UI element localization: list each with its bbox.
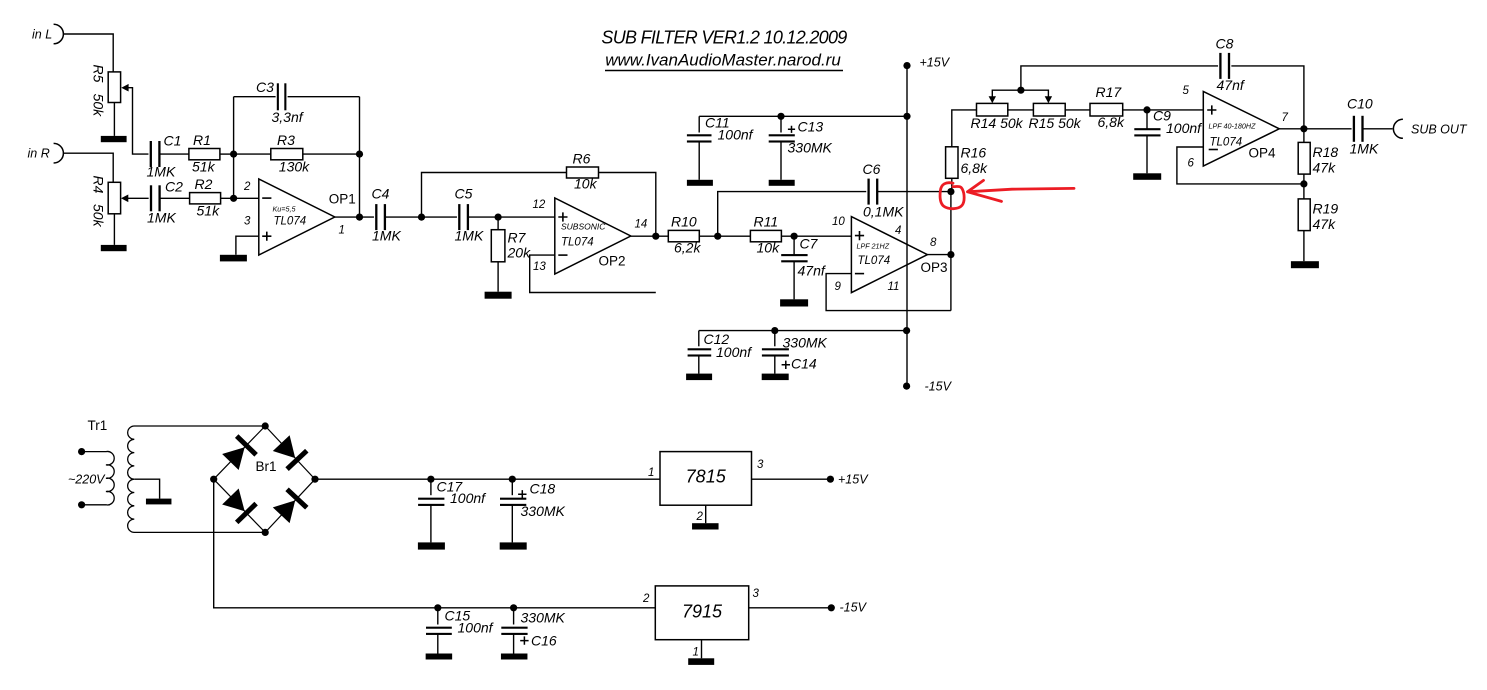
node H junction R17/C9 [1143, 106, 1150, 113]
wire R3 row [234, 153, 360, 155]
svg-text:+15V: +15V [920, 56, 951, 70]
wire R14/R15 wipers to feedback node [992, 90, 1048, 99]
svg-text:-15V: -15V [840, 601, 868, 615]
wire OP1 + input to ground [236, 236, 259, 255]
op-amp OP1 [259, 179, 335, 255]
ground C7 [780, 299, 808, 306]
red arrow [968, 180, 1075, 201]
svg-text:12: 12 [533, 199, 546, 211]
wire -15V decoupling rail [699, 330, 907, 332]
node C16 tap [510, 604, 517, 611]
svg-text:R15 50k: R15 50k [1029, 115, 1082, 131]
OP4 non-inverting input symbol [1207, 105, 1216, 114]
svg-text:51k: 51k [192, 159, 216, 175]
svg-text:Br1: Br1 [256, 459, 277, 474]
node OP1 output [356, 214, 363, 221]
wire C12 to ground [698, 356, 700, 374]
capacitor C14 [774, 331, 776, 347]
svg-text:4: 4 [895, 225, 901, 237]
wire C13 to ground [780, 142, 782, 180]
svg-text:SUBSONIC: SUBSONIC [561, 222, 606, 232]
wire feedback vertical at node A/B [233, 97, 235, 199]
capacitor C1 [148, 141, 161, 167]
wire C1 to R1 [160, 153, 189, 155]
+15V output terminal [827, 476, 834, 483]
wire bridge + output to 7815 [315, 478, 660, 480]
R15 wiper arrow [1045, 96, 1052, 103]
resistor R17 [1090, 103, 1123, 116]
svg-text:3: 3 [244, 216, 251, 228]
capacitor C18 [511, 479, 513, 495]
svg-text:11: 11 [888, 281, 900, 293]
node R3 output side [356, 151, 363, 158]
ground C12 [686, 374, 712, 381]
wire R15 to R17 [1065, 109, 1090, 111]
ground C18 [500, 542, 527, 549]
svg-text:9: 9 [835, 281, 842, 293]
svg-text:in R: in R [28, 147, 50, 161]
capacitor C10 [1352, 116, 1365, 142]
node A junction R1/R3/C3 [230, 151, 237, 158]
node G junction C6/R16/OP3 output [947, 188, 954, 195]
op-amp OP3 [851, 217, 927, 293]
svg-text:R10: R10 [671, 214, 697, 230]
wire 7915 output [749, 607, 832, 609]
node bridge right [311, 476, 318, 483]
svg-text:C1: C1 [164, 133, 182, 149]
node C15 tap [434, 604, 441, 611]
diode D1 (left to top) [221, 434, 258, 471]
wire OP3 output vertical to node G [950, 192, 952, 311]
node C17 tap [427, 476, 434, 483]
resistor R6 [567, 167, 599, 178]
node C13 rail junction [777, 113, 784, 120]
svg-text:OP3: OP3 [921, 260, 948, 275]
svg-text:TL074: TL074 [858, 255, 891, 267]
connector in R [54, 143, 64, 163]
svg-text:C2: C2 [165, 179, 183, 195]
resistor R2 [190, 193, 221, 204]
svg-text:7815: 7815 [686, 466, 727, 486]
wire OP1 output [335, 216, 377, 218]
svg-text:100nf: 100nf [718, 127, 755, 143]
+15V terminal [903, 62, 910, 69]
resistor R7 [497, 217, 499, 230]
potentiometer R5 [108, 72, 120, 103]
svg-text:Tr1: Tr1 [88, 418, 108, 433]
svg-text:5: 5 [1183, 85, 1190, 97]
wire R16 top to R14 [952, 110, 977, 147]
svg-text:R7: R7 [508, 230, 527, 246]
svg-text:13: 13 [533, 261, 546, 273]
svg-text:LPF 40-180HZ: LPF 40-180HZ [1209, 122, 1257, 131]
ground center tap [146, 499, 172, 505]
capacitor C4 [374, 204, 387, 230]
Tr1 secondary winding [128, 426, 266, 532]
node E junction R10/R11/C6 [714, 233, 721, 240]
node OP2 output [652, 233, 659, 240]
svg-text:10: 10 [832, 216, 845, 228]
resistor R1 [189, 149, 220, 160]
connector in L [54, 24, 64, 44]
wire bridge - output to 7915 [214, 479, 656, 608]
wire R1 to node A [220, 153, 234, 155]
svg-text:6,8k: 6,8k [961, 160, 988, 176]
wire C7 to ground [793, 262, 795, 300]
node OP4 output [1300, 125, 1307, 132]
svg-text:TL074: TL074 [561, 237, 594, 249]
ground C9 [1133, 173, 1161, 180]
capacitor C3 [276, 83, 288, 110]
OP2 inverting input symbol [558, 254, 567, 256]
ground 7815 [692, 523, 719, 529]
wire C9 to ground [1146, 136, 1148, 174]
wire C3 feedback top [234, 96, 360, 98]
wire R18 to node I [1303, 174, 1305, 199]
node bridge bottom [262, 529, 269, 536]
wire node C up to R6 feedback and to OP2 output [422, 173, 656, 237]
svg-text:130k: 130k [279, 159, 310, 175]
Tr1 primary winding [82, 451, 115, 505]
wire OP3 inverting feedback loop [826, 274, 951, 311]
diode D2 (top to right) [271, 434, 308, 471]
svg-text:7915: 7915 [682, 602, 723, 622]
svg-text:51k: 51k [197, 203, 221, 219]
wire C15 to ground [437, 634, 439, 653]
wire R11 to OP3 + input [781, 235, 851, 237]
wire C11 to ground [698, 142, 700, 180]
wire 7915 pin 1 to ground [701, 640, 703, 659]
svg-text:R5: R5 [91, 65, 107, 83]
regulator U1 7815 [660, 452, 752, 506]
R4 wiper arrow [121, 195, 128, 203]
svg-text:-15V: -15V [925, 380, 953, 394]
wire C17 to ground [430, 505, 432, 542]
wire feedback right vertical to OP1 output [359, 97, 361, 217]
node bridge top [262, 422, 269, 429]
svg-text:~220V: ~220V [68, 473, 106, 487]
svg-text:50k: 50k [91, 94, 107, 118]
svg-text:1MK: 1MK [455, 228, 484, 244]
wire C18 to ground [511, 505, 513, 542]
svg-text:14: 14 [635, 219, 648, 231]
svg-text:C16: C16 [531, 633, 557, 649]
svg-text:330MK: 330MK [788, 140, 833, 156]
svg-text:R2: R2 [195, 176, 213, 192]
wire R4 to ground [113, 214, 115, 245]
svg-text:R1: R1 [193, 132, 211, 148]
svg-text:100nf: 100nf [450, 490, 487, 506]
svg-text:1MK: 1MK [372, 228, 401, 244]
wire node E up to C6 line [718, 192, 869, 237]
capacitor C15 [437, 608, 439, 625]
R14 wiper arrow [989, 96, 996, 103]
ground C11 [687, 180, 713, 186]
node D junction C5/R7 [495, 214, 502, 221]
ground C17 [418, 542, 445, 549]
wire R4 wiper to C2 [128, 197, 151, 199]
resistor R10 [668, 230, 699, 241]
svg-text:330MK: 330MK [783, 335, 828, 351]
svg-text:R17: R17 [1096, 84, 1123, 100]
svg-text:0,1MK: 0,1MK [863, 204, 904, 220]
svg-text:6,8k: 6,8k [1098, 114, 1125, 130]
op-amp OP2 [555, 198, 631, 274]
OP2 non-inverting input symbol [558, 212, 567, 221]
wire R2 to OP1 inverting input [221, 197, 259, 199]
svg-text:C4: C4 [372, 186, 390, 202]
wire R7 to ground [497, 262, 499, 292]
wire 7815 output [752, 478, 831, 480]
svg-text:2: 2 [642, 593, 650, 605]
svg-text:330MK: 330MK [521, 610, 566, 626]
svg-text:1: 1 [339, 225, 345, 237]
svg-text:1: 1 [693, 647, 699, 659]
svg-text:OP4: OP4 [1249, 146, 1277, 161]
regulator U2 7915 [655, 586, 748, 640]
wire C6 to node G [878, 191, 951, 193]
node F junction R11/C7 [791, 233, 798, 240]
wire OP4 output [1278, 128, 1353, 130]
svg-text:47nf: 47nf [1217, 77, 1246, 93]
svg-text:TL074: TL074 [1210, 137, 1243, 149]
svg-text:1: 1 [648, 467, 654, 479]
svg-text:R3: R3 [277, 132, 295, 148]
svg-text:C8: C8 [1216, 36, 1234, 52]
svg-text:6: 6 [1188, 158, 1195, 170]
resistor R16 [951, 178, 953, 191]
wire R19 to ground [1303, 231, 1305, 262]
svg-text:7: 7 [1282, 112, 1289, 124]
svg-text:100nf: 100nf [1166, 120, 1203, 136]
wire R10 to R11 [699, 235, 750, 237]
node wiper junction [1017, 87, 1024, 94]
node OP3 output [947, 251, 954, 258]
OP1 inverting input symbol [262, 197, 271, 199]
Tr1 primary terminal top [78, 448, 85, 455]
node B junction R2/feedback [230, 195, 237, 202]
resistor R18 [1303, 129, 1305, 143]
wire C14 to ground [774, 356, 776, 374]
wire Tr1 center tap [134, 479, 159, 498]
wire in L to R5 [63, 34, 113, 72]
svg-text:C10: C10 [1347, 96, 1373, 112]
op-amp OP4 [1203, 92, 1279, 167]
svg-text:R6: R6 [573, 151, 591, 167]
OP4 inverting input symbol [1209, 149, 1218, 151]
capacitor C7 [793, 236, 795, 254]
capacitor C8 [1218, 53, 1231, 79]
node C junction C4/C5/R6 [418, 214, 425, 221]
node I junction R18/R19/feedback [1300, 180, 1307, 187]
R5 wiper arrow [121, 84, 128, 92]
potentiometer R14 [977, 103, 1008, 116]
wire OP4 inverting feedback loop [1177, 147, 1304, 184]
capacitor C2 [149, 185, 162, 211]
svg-text:1MK: 1MK [147, 210, 176, 226]
ground R7 [485, 292, 512, 299]
svg-text:SUB FILTER VER1.2 10.12.2009: SUB FILTER VER1.2 10.12.2009 [601, 28, 847, 48]
capacitor C17 [430, 479, 432, 495]
svg-text:R14 50k: R14 50k [971, 115, 1024, 131]
svg-text:OP2: OP2 [599, 254, 626, 269]
capacitor C13 [780, 116, 782, 132]
svg-text:in L: in L [32, 28, 52, 42]
svg-text:R4: R4 [91, 176, 107, 194]
red highlight circle [940, 183, 964, 209]
svg-text:10k: 10k [574, 176, 598, 192]
wire C4 to node C [385, 216, 422, 218]
ground R5 [101, 136, 127, 142]
svg-text:3: 3 [753, 588, 760, 600]
Tr1 primary terminal bottom [78, 501, 85, 508]
OP3 inverting input symbol [855, 273, 864, 275]
svg-text:R16: R16 [961, 145, 987, 161]
capacitor C11 [698, 116, 700, 132]
svg-text:C7: C7 [800, 236, 819, 252]
ground R4 [101, 245, 127, 251]
svg-text:LPF 21HZ: LPF 21HZ [857, 242, 890, 251]
connector SUB OUT [1393, 119, 1403, 138]
svg-text:8: 8 [930, 237, 937, 249]
node +15V rail junction [903, 113, 910, 120]
svg-text:C14: C14 [791, 356, 817, 372]
wire OP3 output [927, 254, 951, 256]
wire main power rail vertical [906, 66, 908, 387]
svg-text:C3: C3 [256, 79, 274, 95]
svg-text:C5: C5 [455, 186, 473, 202]
wire +15V decoupling rail [699, 115, 907, 117]
ground C16 [501, 654, 528, 660]
node C18 tap [509, 476, 516, 483]
svg-text:6,2k: 6,2k [674, 240, 701, 256]
svg-text:330MK: 330MK [521, 503, 566, 519]
wire R17 to OP4 + input [1123, 109, 1204, 111]
svg-text:www.IvanAudioMaster.narod.ru: www.IvanAudioMaster.narod.ru [605, 51, 841, 70]
capacitor C9 [1146, 110, 1148, 129]
svg-text:C13: C13 [798, 119, 824, 135]
node C14 rail junction [771, 327, 778, 334]
svg-text:SUB OUT: SUB OUT [1411, 123, 1468, 137]
OP1 non-inverting input symbol [262, 232, 271, 241]
svg-text:OP1: OP1 [329, 192, 356, 207]
svg-text:100nf: 100nf [458, 620, 495, 636]
capacitor C12 [698, 331, 700, 347]
resistor R11 [750, 230, 781, 241]
capacitor C16 [513, 608, 515, 625]
resistor R19 [1298, 199, 1310, 231]
svg-text:TL074: TL074 [274, 216, 307, 228]
ground C14 [762, 374, 789, 381]
svg-text:3: 3 [757, 459, 764, 471]
potentiometer R4 [108, 182, 120, 214]
node -15V rail junction [903, 327, 910, 334]
wire OP2 output [631, 235, 669, 237]
bridge rectifier Br1 diamond [214, 426, 315, 532]
ground OP1 [220, 255, 247, 262]
ground C15 [426, 654, 453, 660]
svg-text:1MK: 1MK [147, 164, 176, 180]
wire C10 to SUB OUT [1363, 128, 1393, 130]
wire C2 to R2 [160, 197, 190, 199]
wire wiper node up to C8 feedback line [1021, 66, 1304, 129]
node bridge left [210, 476, 217, 483]
wire C5 to OP2 + input [467, 216, 554, 218]
svg-text:R19: R19 [1313, 201, 1339, 217]
svg-text:100nf: 100nf [716, 344, 753, 360]
resistor R3 [271, 149, 303, 160]
wire R14 to R15 [1008, 109, 1034, 111]
svg-text:3,3nf: 3,3nf [272, 109, 305, 125]
wire in R to R4 [63, 153, 113, 182]
svg-text:Ku=5,5: Ku=5,5 [273, 205, 297, 214]
svg-text:2: 2 [243, 181, 251, 193]
ground C13 [769, 180, 795, 186]
svg-text:R11: R11 [754, 214, 779, 230]
svg-text:R18: R18 [1313, 144, 1339, 160]
svg-text:47k: 47k [1313, 216, 1337, 232]
wire R5 wiper to C1 [128, 88, 151, 154]
wire node C to C5 [422, 216, 460, 218]
OP3 non-inverting input symbol [855, 231, 864, 240]
svg-text:10k: 10k [757, 240, 781, 256]
ground 7915 [688, 658, 714, 665]
svg-text:+15V: +15V [838, 473, 869, 487]
diode D4 (bottom to right) [271, 487, 308, 524]
wire R5 to ground [113, 103, 115, 136]
svg-text:1MK: 1MK [1350, 141, 1379, 157]
svg-text:2: 2 [696, 511, 704, 523]
ground R19 [1291, 261, 1319, 268]
potentiometer R15 [1033, 103, 1065, 116]
capacitor C5 [457, 204, 470, 230]
-15V terminal [903, 383, 910, 390]
wire OP2 inverting feedback loop [530, 255, 656, 292]
svg-text:47nf: 47nf [798, 263, 827, 279]
svg-text:C6: C6 [863, 161, 881, 177]
svg-text:20k: 20k [507, 245, 532, 261]
wire C16 to ground [513, 634, 515, 653]
diode D3 (left to bottom) [221, 487, 258, 524]
-15V output terminal [828, 604, 835, 611]
capacitor C6 [866, 179, 879, 205]
svg-text:50k: 50k [91, 204, 107, 228]
wire 7815 pin 2 to ground [705, 505, 707, 523]
svg-text:C18: C18 [530, 481, 556, 497]
svg-text:47k: 47k [1313, 160, 1337, 176]
